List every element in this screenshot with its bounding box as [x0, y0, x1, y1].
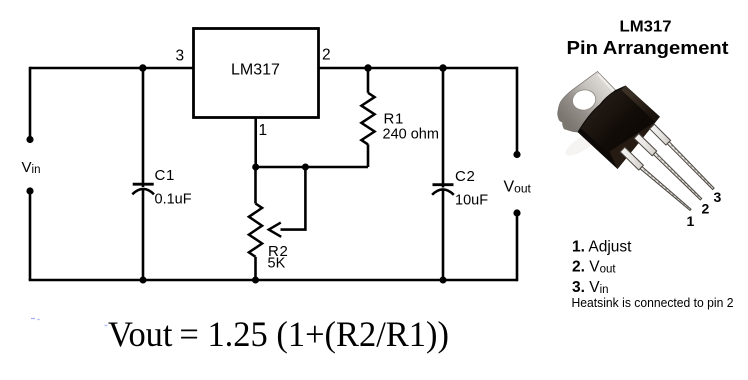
wire: right output vertical lower segment [516, 213, 519, 281]
svg-text:Vout: Vout [504, 178, 532, 195]
TO-220 package photo: leg 2 (middle) [634, 134, 702, 200]
capacitor C1 (top plate) [133, 183, 154, 186]
resistor R1 lower lead [367, 144, 370, 167]
svg-text:Pin Arrangement: Pin Arrangement [567, 37, 729, 58]
svg-text:Vin: Vin [22, 159, 41, 176]
capacitor C2 (curved bottom plate) [432, 189, 454, 194]
svg-text:3: 3 [176, 48, 185, 65]
wire: C2 branch upper [442, 68, 445, 188]
node: Vin upper terminal dot [26, 136, 33, 143]
svg-text:LM317: LM317 [231, 62, 280, 79]
resistor R1 zigzag [361, 93, 374, 145]
svg-text:2: 2 [322, 46, 331, 63]
svg-text:10uF: 10uF [455, 193, 488, 209]
resistor R1 upper lead [367, 68, 370, 93]
svg-text:2: 2 [702, 201, 710, 217]
svg-text:C2: C2 [455, 168, 476, 185]
stray blue speck artifacts [31, 319, 40, 320]
wire: C1 branch lower [142, 190, 145, 280]
wire: LM317 pin 1 vertical [254, 118, 257, 168]
resistor R2 (5K pot) upper lead [254, 167, 257, 204]
svg-text:1: 1 [687, 213, 695, 229]
svg-text:LM317: LM317 [620, 19, 672, 36]
node: Vout upper terminal dot [513, 151, 520, 158]
TO-220 package photo: leg 3 (back) [650, 124, 714, 189]
TO-220 package photo: soft shadow [562, 128, 601, 159]
wire: top rail right (LM317 pin 2 to output corner) [319, 67, 518, 70]
svg-text:C1: C1 [155, 167, 176, 184]
svg-text:5K: 5K [268, 256, 286, 272]
svg-text:Vout = 1.25 (1+(R2/R1)): Vout = 1.25 (1+(R2/R1)) [108, 314, 449, 354]
node: junction dot top rail at R1 [364, 64, 371, 71]
svg-text:3: 3 [714, 189, 722, 205]
TO-220 package photo: leg 1 (front) [620, 147, 691, 210]
wire: bottom rail [29, 279, 517, 282]
svg-text:1: 1 [259, 122, 268, 139]
wire: left input vertical lower segment [29, 191, 32, 280]
wire: left input vertical upper segment [29, 67, 32, 139]
resistor R2 lower lead [254, 257, 257, 280]
svg-text:1. Adjust: 1. Adjust [572, 238, 632, 255]
TO-220 package photo: body bottom face strip [610, 117, 660, 169]
wire: right output vertical upper segment [516, 67, 519, 154]
TO-220 package photo: body top face lighter band [621, 86, 660, 122]
TO-220 package photo: black plastic body silhouette [578, 86, 660, 170]
wire: C1 branch upper [142, 68, 145, 187]
node: junction dot adj rail wiper [302, 164, 309, 171]
wire: top rail left (input corner to LM317 pin 3) [30, 67, 194, 70]
TO-220 package photo: tab top edge highlight [598, 74, 614, 91]
node: Vin lower terminal dot [26, 187, 33, 194]
wire: C2 branch lower [442, 191, 445, 281]
svg-text:240 ohm: 240 ohm [383, 127, 439, 143]
pot wiper arrowhead [269, 223, 281, 237]
svg-text:0.1uF: 0.1uF [155, 192, 192, 208]
node: junction dot bottom rail at C1 [140, 277, 147, 284]
TO-220 package photo: body front face [581, 88, 657, 164]
TO-220 package photo: metal tab [558, 72, 616, 133]
svg-text:Heatsink is connected to pin 2: Heatsink is connected to pin 2 [572, 295, 734, 310]
node: junction dot bottom rail at C2 [440, 277, 447, 284]
TO-220 package photo: tab mounting hole [570, 87, 598, 112]
IC U1: LM317 regulator box [194, 29, 319, 118]
node: junction dot top rail at C2 [439, 64, 446, 71]
svg-text:2. Vout: 2. Vout [572, 258, 616, 275]
wire: adjust horizontal rail [256, 166, 368, 169]
node: junction dot bottom rail at R2 [252, 277, 259, 284]
node: junction dot adj rail left [252, 164, 259, 171]
node: Vout lower terminal dot [513, 209, 520, 216]
node: junction dot top rail at C1 branch [139, 64, 146, 71]
capacitor C2 (top plate) [433, 183, 454, 186]
svg-text:3. Vin: 3. Vin [572, 279, 609, 296]
pot wiper wire (vertical + horizontal) [281, 167, 306, 230]
resistor R2 zigzag [249, 204, 262, 257]
svg-text:R1: R1 [384, 110, 405, 127]
capacitor C1 (curved bottom plate) [132, 189, 154, 194]
